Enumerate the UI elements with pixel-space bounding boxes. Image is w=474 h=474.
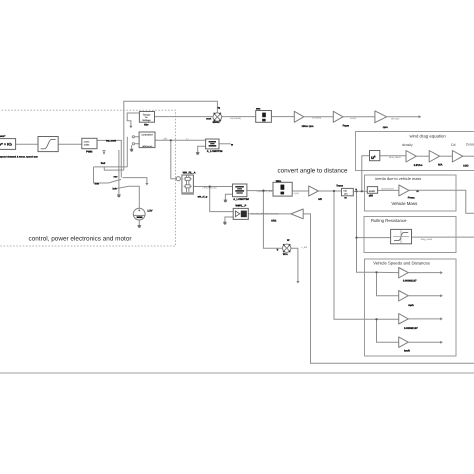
svg-text:N/A: N/A <box>438 164 443 167</box>
svg-text:wm: wm <box>256 107 261 110</box>
svg-text:tq: tq <box>218 106 221 109</box>
svg-text:Vehicle Speeds and Distances: Vehicle Speeds and Distances <box>373 261 430 266</box>
svg-text:Motor: Motor <box>213 121 220 124</box>
svg-text:v [m/s] PS_Sim: v [m/s] PS_Sim <box>257 190 273 193</box>
svg-text:2m: 2m <box>344 193 347 196</box>
svg-text:density: density <box>402 143 413 147</box>
svg-text:speed demand & meas. speed rpm: speed demand & meas. speed rpm <box>0 155 38 158</box>
svg-text:wind drag equation: wind drag equation <box>410 133 447 138</box>
svg-text:W#o: W#o <box>276 180 282 183</box>
svg-text:inertia due to vehicle mass: inertia due to vehicle mass <box>375 176 421 181</box>
svg-text:Cross: Cross <box>466 143 474 147</box>
svg-text:ASD: ASD <box>463 165 469 168</box>
svg-text:km/h: km/h <box>404 350 410 353</box>
svg-text:w* = Kb: w* = Kb <box>0 143 13 147</box>
svg-text:wm*: wm* <box>0 135 5 138</box>
svg-text:Voltage: Voltage <box>142 119 151 122</box>
svg-text:brk: brk <box>113 188 118 191</box>
svg-text:b: b <box>277 248 279 251</box>
svg-text:x [m]: x [m] <box>294 192 299 195</box>
svg-text:A_LOMOTIM: A_LOMOTIM <box>207 150 223 153</box>
svg-text:0.00062137: 0.00062137 <box>404 327 418 330</box>
svg-text:u²: u² <box>371 155 376 161</box>
svg-text:mph: mph <box>408 304 414 307</box>
svg-text:Cd: Cd <box>451 143 455 147</box>
svg-text:1/Km rpm: 1/Km rpm <box>302 125 315 128</box>
svg-text:wh_rl_p: wh_rl_p <box>198 196 208 199</box>
svg-text:du/dt [m/s2]: du/dt [m/s2] <box>381 187 393 190</box>
svg-text:m: m <box>344 196 347 199</box>
svg-text:F=ma: F=ma <box>408 197 415 200</box>
svg-text:Vehicle Mass: Vehicle Mass <box>391 201 418 206</box>
svg-text:veh rpm: veh rpm <box>391 117 399 120</box>
svg-text:Trans: Trans <box>336 185 343 188</box>
svg-text:W#RL_P: W#RL_P <box>235 205 246 208</box>
svg-text:rpm: rpm <box>383 126 389 129</box>
svg-text:Frpm: Frpm <box>343 124 350 127</box>
svg-text:convert angle to distance: convert angle to distance <box>278 167 349 174</box>
svg-text:x_dot: x_dot <box>301 246 307 249</box>
svg-text:wind_resist: wind_resist <box>389 156 401 159</box>
svg-text:GR: GR <box>318 198 322 201</box>
svg-text:c r: c r <box>186 138 189 141</box>
svg-text:wm [rad/s]: wm [rad/s] <box>230 117 241 120</box>
svg-text:drag_resist: drag_resist <box>421 238 433 241</box>
svg-text:mot: mot <box>206 117 211 120</box>
svg-text:reference: reference <box>142 145 153 148</box>
svg-text:v PS [m/s] out: v PS [m/s] out <box>202 187 217 190</box>
svg-text:1.5V: 1.5V <box>147 210 153 213</box>
svg-text:A_LOMOTIM: A_LOMOTIM <box>233 198 249 201</box>
svg-text:m: m <box>417 190 419 193</box>
svg-text:controlled: controlled <box>141 133 153 136</box>
svg-text:0.00062137: 0.00062137 <box>403 280 417 283</box>
svg-text:Simulink_PS force demand: Simulink_PS force demand <box>251 213 279 216</box>
svg-text:diff: diff <box>369 194 373 197</box>
svg-text:i [A]: i [A] <box>163 138 167 141</box>
svg-text:trq_cmd: trq_cmd <box>106 140 116 143</box>
svg-text:PWM: PWM <box>86 150 92 153</box>
svg-text:rad: rad <box>343 190 347 193</box>
svg-text:Hbr: Hbr <box>144 123 148 126</box>
svg-text:rev: rev <box>114 175 118 178</box>
svg-text:w [rad/s]: w [rad/s] <box>312 117 321 120</box>
svg-text:volts: volts <box>84 143 90 146</box>
svg-text:Rolling Resistance: Rolling Resistance <box>371 218 407 223</box>
svg-text:Wm: Wm <box>283 253 288 256</box>
svg-text:w: w <box>231 144 234 147</box>
svg-text:GR2: GR2 <box>271 220 277 223</box>
svg-text:w rpm: w rpm <box>350 117 356 120</box>
svg-text:W: W <box>287 239 290 242</box>
svg-text:du/dt: du/dt <box>369 190 375 193</box>
svg-text:0.5*rho: 0.5*rho <box>414 164 423 167</box>
svg-text:fwd: fwd <box>101 162 106 165</box>
svg-text:control, power electronics and: control, power electronics and motor <box>29 236 133 243</box>
svg-text:WH_RL_A: WH_RL_A <box>183 171 196 174</box>
